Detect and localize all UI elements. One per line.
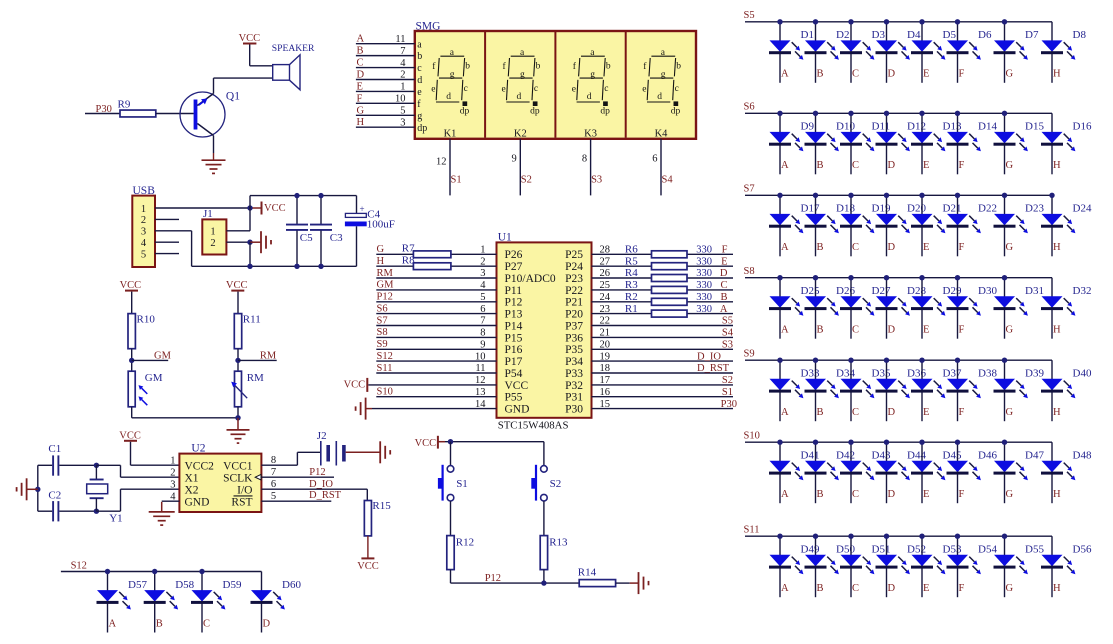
svg-text:E: E — [923, 160, 929, 171]
svg-text:P15: P15 — [505, 332, 523, 344]
net label S2 (U1 right) — [722, 375, 733, 386]
svg-text:D_IO: D_IO — [697, 351, 721, 362]
LED D47 — [994, 442, 1045, 503]
U1 pin 12 (VCC) — [475, 375, 528, 392]
svg-text:dp: dp — [671, 107, 681, 117]
wire U2 pin6 / net D_IO to R15 — [261, 479, 367, 501]
LED D42 — [805, 442, 855, 503]
svg-text:D39: D39 — [1025, 368, 1044, 380]
svg-text:B: B — [817, 69, 824, 80]
svg-text:b: b — [606, 62, 611, 72]
svg-text:K3: K3 — [584, 128, 597, 139]
net label D (S6) — [888, 160, 896, 171]
svg-text:A: A — [781, 325, 789, 336]
svg-text:R2: R2 — [625, 291, 638, 303]
net label A (S7) — [781, 242, 789, 253]
svg-text:G: G — [1006, 160, 1014, 171]
junction S11 col G — [1002, 534, 1007, 539]
junction VCC-S1 — [448, 439, 453, 444]
U1 pin 25 (P22) — [565, 280, 733, 297]
svg-text:D11: D11 — [872, 121, 891, 133]
net label S11 — [744, 524, 760, 535]
svg-text:P30: P30 — [565, 404, 583, 416]
svg-text:d: d — [446, 92, 451, 102]
svg-text:330: 330 — [696, 268, 712, 279]
wire USB pin2 stub — [155, 218, 179, 220]
svg-text:R1: R1 — [625, 303, 638, 315]
SMG digit 4 glyph — [642, 48, 681, 116]
svg-text:D9: D9 — [801, 121, 815, 133]
svg-text:P12: P12 — [505, 297, 523, 309]
svg-text:SCLK: SCLK — [223, 472, 253, 484]
svg-text:E: E — [923, 325, 929, 336]
svg-text:c: c — [604, 84, 608, 94]
svg-text:D27: D27 — [872, 285, 891, 297]
svg-text:D31: D31 — [1025, 285, 1044, 297]
svg-text:S9: S9 — [377, 339, 388, 350]
svg-text:100uF: 100uF — [367, 218, 395, 230]
svg-text:D14: D14 — [978, 121, 997, 133]
svg-text:D54: D54 — [978, 544, 997, 556]
junction Y1 bottom — [94, 509, 99, 514]
svg-text:e: e — [431, 84, 435, 94]
svg-text:d: d — [587, 92, 592, 102]
junction RM-gnd — [235, 415, 240, 420]
svg-text:VCC: VCC — [344, 379, 366, 390]
svg-text:D32: D32 — [1073, 285, 1092, 297]
junction S5 col B — [813, 19, 818, 24]
LED D16 — [1041, 113, 1092, 174]
U1 pin 23 (P20) — [565, 304, 733, 321]
svg-text:B: B — [817, 583, 824, 594]
junction J1 pin2 node — [247, 240, 252, 245]
SMG common pin K4 (pin 6) / net S4 — [652, 128, 673, 195]
net label G (S7) — [1006, 242, 1014, 253]
SMG pin 4 (c) / net C — [356, 58, 422, 75]
net label A (S5) — [781, 69, 789, 80]
svg-text:D_IO: D_IO — [309, 479, 333, 490]
junction S5 col D — [884, 19, 889, 24]
svg-text:U2: U2 — [191, 442, 205, 454]
svg-text:P26: P26 — [505, 249, 523, 261]
net label RM (U1 left) — [377, 268, 394, 279]
junction S6 col A — [777, 111, 782, 116]
net label C (S7) — [852, 242, 859, 253]
U1 pin 13 (P55) — [376, 387, 522, 404]
wire row S9 — [745, 359, 1052, 361]
net label F (S7) — [959, 242, 965, 253]
svg-text:2: 2 — [170, 467, 175, 478]
svg-text:P16: P16 — [505, 344, 523, 356]
net label A (S11) — [781, 583, 789, 594]
net label S4 (U1 right) — [722, 328, 734, 339]
net label F (S8) — [959, 325, 965, 336]
net label G (S6) — [1006, 160, 1014, 171]
svg-text:D18: D18 — [836, 203, 855, 215]
svg-text:F: F — [959, 325, 965, 336]
junction S9 col C — [848, 358, 853, 363]
svg-text:A: A — [781, 69, 789, 80]
svg-text:R6: R6 — [625, 244, 638, 256]
LED D19 — [840, 195, 891, 256]
svg-text:1: 1 — [170, 455, 175, 466]
net label S12 — [71, 561, 87, 572]
svg-text:1: 1 — [210, 227, 215, 238]
LED D46 — [947, 442, 998, 503]
power VCC (U1 pin12) — [344, 378, 497, 392]
svg-text:H: H — [1053, 407, 1061, 418]
svg-text:C3: C3 — [330, 232, 343, 244]
wire R10 to GM node — [131, 349, 133, 372]
junction S8 col D — [884, 275, 889, 280]
net label B (S5) — [817, 69, 824, 80]
svg-text:c: c — [417, 63, 422, 74]
svg-text:S4: S4 — [722, 328, 734, 339]
svg-text:H: H — [1053, 325, 1061, 336]
svg-text:C: C — [852, 69, 859, 80]
svg-text:5: 5 — [400, 105, 405, 116]
svg-text:P23: P23 — [565, 273, 583, 285]
junction S12 col C — [199, 569, 204, 574]
svg-text:dp: dp — [417, 123, 427, 134]
svg-text:c: c — [534, 84, 538, 94]
wire Y1 bottom to U2 X2 — [96, 489, 179, 511]
LED D53 — [911, 536, 962, 597]
svg-text:4: 4 — [400, 58, 406, 69]
svg-text:P12: P12 — [485, 573, 501, 584]
svg-text:d: d — [517, 92, 522, 102]
svg-text:VCC: VCC — [239, 33, 261, 44]
net label B (segment) — [720, 292, 727, 303]
svg-text:D5: D5 — [943, 29, 957, 41]
svg-text:S10: S10 — [744, 430, 760, 441]
svg-text:D48: D48 — [1073, 450, 1092, 462]
svg-text:F: F — [959, 242, 965, 253]
crystal Y1 — [87, 465, 123, 524]
svg-text:R12: R12 — [456, 536, 474, 548]
svg-text:GM: GM — [145, 372, 163, 384]
svg-text:D33: D33 — [801, 368, 820, 380]
LED D38 — [947, 360, 998, 421]
svg-text:A: A — [781, 583, 789, 594]
svg-text:R11: R11 — [243, 313, 261, 325]
junction S7 col C — [848, 193, 853, 198]
svg-text:D21: D21 — [943, 203, 962, 215]
SMG pin 5 (g) / net G — [356, 105, 422, 122]
svg-text:B: B — [357, 46, 364, 57]
LED D55 — [994, 536, 1045, 597]
net label S12 (U1 left) — [377, 351, 393, 362]
svg-text:S2: S2 — [550, 478, 562, 490]
net label E (segment) — [721, 256, 727, 267]
svg-text:A: A — [781, 160, 789, 171]
SMG pin 10 (f) / net F — [356, 93, 421, 110]
svg-text:A: A — [781, 242, 789, 253]
svg-text:R4: R4 — [625, 267, 638, 279]
junction S7 col A — [777, 193, 782, 198]
LED D4 — [876, 22, 921, 83]
svg-text:P10/ADC0: P10/ADC0 — [505, 273, 556, 285]
svg-text:4: 4 — [141, 238, 147, 249]
net label D (S10) — [888, 489, 896, 500]
svg-text:S7: S7 — [744, 184, 755, 195]
net label H (S5) — [1053, 69, 1061, 80]
svg-text:P13: P13 — [505, 309, 523, 321]
svg-text:B: B — [817, 489, 824, 500]
resistor R6 330 — [625, 244, 712, 258]
svg-text:d: d — [417, 75, 422, 86]
svg-text:D: D — [263, 618, 271, 629]
wire USB pin5 stub — [155, 253, 179, 255]
svg-text:2: 2 — [400, 70, 405, 81]
net label S6 (U1 left) — [377, 303, 388, 314]
net label S8 (U1 left) — [377, 327, 388, 338]
svg-text:G: G — [357, 105, 365, 116]
LED D3 — [840, 22, 885, 83]
net label D (S5) — [888, 69, 896, 80]
junction S5 col C — [848, 19, 853, 24]
svg-text:S3: S3 — [722, 340, 733, 351]
svg-text:E: E — [923, 69, 929, 80]
svg-text:3: 3 — [400, 117, 405, 128]
svg-text:VCC: VCC — [120, 280, 142, 291]
svg-text:D46: D46 — [978, 450, 997, 462]
svg-text:S12: S12 — [377, 351, 393, 362]
net label C (S6) — [852, 160, 859, 171]
svg-text:D16: D16 — [1073, 121, 1092, 133]
svg-text:330: 330 — [696, 304, 712, 315]
U1 pin 1 (P26) — [376, 245, 522, 262]
net label E (S10) — [923, 489, 929, 500]
svg-text:F: F — [959, 583, 965, 594]
svg-text:g: g — [450, 70, 455, 80]
svg-text:D40: D40 — [1073, 368, 1092, 380]
net label D (S9) — [888, 407, 896, 418]
svg-text:D6: D6 — [978, 29, 992, 41]
junction S9 col B — [813, 358, 818, 363]
svg-text:330: 330 — [696, 292, 712, 303]
svg-text:G: G — [1006, 69, 1014, 80]
junction C3 bottom — [318, 264, 323, 269]
net label F (S9) — [959, 407, 965, 418]
svg-text:VCC2: VCC2 — [185, 460, 215, 472]
LED D32 — [1041, 278, 1091, 339]
net label E (S6) — [923, 160, 929, 171]
LED D15 — [994, 113, 1045, 174]
LED D28 — [876, 278, 927, 339]
power VCC (below R15) — [357, 536, 379, 572]
junction S11 col C — [848, 534, 853, 539]
svg-text:VCC: VCC — [415, 438, 437, 449]
U1 pin 21 (P36) — [565, 328, 733, 345]
net label H (S8) — [1053, 325, 1061, 336]
SMG digit 3 glyph — [572, 48, 611, 116]
LED D11 — [840, 113, 890, 174]
junction S6 col C — [848, 111, 853, 116]
display SMG (4-digit 7-segment) — [415, 20, 696, 139]
resistor R5 330 — [625, 255, 712, 269]
resistor R12 — [447, 536, 474, 570]
svg-text:D42: D42 — [836, 450, 855, 462]
net label B (S6) — [817, 160, 824, 171]
svg-text:S6: S6 — [377, 303, 388, 314]
svg-text:S10: S10 — [377, 387, 393, 398]
svg-text:P34: P34 — [565, 356, 583, 368]
svg-text:D35: D35 — [872, 368, 891, 380]
resistor R8 — [402, 254, 451, 269]
svg-text:e: e — [642, 84, 646, 94]
net label B (S10) — [817, 489, 824, 500]
svg-text:D37: D37 — [943, 368, 962, 380]
junction S5 col G — [1002, 19, 1007, 24]
svg-text:e: e — [502, 84, 506, 94]
wire U2 pin5 / net D_RST — [261, 490, 341, 501]
svg-text:A: A — [109, 618, 117, 629]
svg-text:D41: D41 — [801, 450, 820, 462]
U1 pin 9 (P16) — [376, 340, 522, 357]
junction S8 col C — [848, 275, 853, 280]
wire GM to bottom rail — [132, 407, 238, 418]
svg-text:330: 330 — [696, 256, 712, 267]
svg-text:STC15W408AS: STC15W408AS — [498, 419, 569, 431]
LED D60 — [251, 572, 302, 633]
svg-text:E: E — [923, 583, 929, 594]
net label C (S5) — [852, 69, 859, 80]
power VCC (R10) — [120, 280, 142, 291]
LED D36 — [876, 360, 927, 421]
svg-text:H: H — [1053, 242, 1061, 253]
svg-text:R15: R15 — [372, 500, 391, 512]
capacitor C5 — [286, 196, 313, 267]
LED D17 — [769, 195, 820, 256]
LED D24 — [1041, 195, 1092, 256]
svg-text:e: e — [572, 84, 576, 94]
LED D56 — [1041, 536, 1092, 597]
svg-text:D2: D2 — [836, 29, 849, 41]
net label E (S7) — [923, 242, 929, 253]
wire row S8 — [745, 277, 1052, 279]
LED D18 — [805, 195, 856, 256]
net label E (S8) — [923, 325, 929, 336]
svg-text:H: H — [1053, 69, 1061, 80]
LED D37 — [911, 360, 962, 421]
svg-text:D: D — [888, 69, 896, 80]
LED D58 — [144, 572, 195, 633]
LED D40 — [1041, 360, 1092, 421]
svg-text:P33: P33 — [565, 368, 583, 380]
svg-text:K4: K4 — [655, 128, 669, 139]
svg-text:C: C — [852, 407, 859, 418]
wire row S10 — [745, 441, 1052, 443]
net label D (S7) — [888, 242, 896, 253]
svg-text:1: 1 — [400, 82, 405, 93]
svg-text:S1: S1 — [456, 478, 468, 490]
U1 pin 8 (P15) — [376, 328, 522, 345]
svg-text:D28: D28 — [907, 285, 926, 297]
net label B (S12) — [156, 618, 163, 629]
svg-text:D38: D38 — [978, 368, 997, 380]
LED D22 — [947, 195, 997, 256]
svg-text:P54: P54 — [505, 368, 523, 380]
junction S12 col B — [152, 569, 157, 574]
svg-text:D: D — [888, 489, 896, 500]
junction S7 col B — [813, 193, 818, 198]
SMG digit 2 glyph — [502, 48, 541, 116]
SMG common pin K3 (pin 8) / net S3 — [582, 128, 602, 195]
svg-text:e: e — [417, 87, 422, 98]
LED D59 — [191, 572, 242, 633]
junction S11 col B — [813, 534, 818, 539]
U1 pin 24 (P21) — [565, 292, 733, 309]
ground (earth) under Q1 — [202, 160, 226, 173]
svg-text:C1: C1 — [48, 443, 61, 455]
net label C (segment) — [720, 280, 727, 291]
svg-text:P36: P36 — [565, 332, 583, 344]
svg-text:F: F — [959, 407, 965, 418]
resistor R1 330 — [625, 303, 712, 317]
U1 pin 22 (P37) — [565, 316, 733, 333]
LED D10 — [805, 113, 856, 174]
svg-text:K1: K1 — [444, 128, 457, 139]
svg-text:E: E — [923, 489, 929, 500]
U1 pin 18 (P33) — [565, 363, 733, 380]
wire net P12 rail — [451, 573, 580, 584]
net label A (S12) — [109, 618, 117, 629]
svg-text:g: g — [520, 70, 525, 80]
net label S5 — [744, 10, 755, 21]
wire left rail C1-C2 — [37, 465, 39, 511]
junction S10 col F — [955, 440, 960, 445]
svg-text:VCC: VCC — [119, 431, 141, 442]
svg-text:5: 5 — [141, 249, 146, 260]
svg-text:P20: P20 — [565, 309, 583, 321]
svg-text:F: F — [722, 245, 728, 256]
svg-text:S3: S3 — [591, 175, 602, 186]
svg-text:F: F — [357, 93, 363, 104]
net label H (S7) — [1053, 242, 1061, 253]
svg-text:RM: RM — [377, 268, 394, 279]
svg-text:S11: S11 — [377, 363, 393, 374]
net label E (S9) — [923, 407, 929, 418]
svg-text:D45: D45 — [943, 450, 962, 462]
net label B (S7) — [817, 242, 824, 253]
junction S7 col E — [919, 193, 924, 198]
LED D29 — [911, 278, 962, 339]
LED D57 — [97, 572, 148, 633]
net label S7 — [744, 184, 755, 195]
svg-text:S5: S5 — [744, 10, 755, 21]
U1 pin 17 (P32) — [565, 375, 733, 392]
ground (signal) right of J2 — [346, 441, 391, 463]
junction S10 col B — [813, 440, 818, 445]
capacitor C4 100uF (polarized) — [345, 196, 395, 267]
net label H (S9) — [1053, 407, 1061, 418]
LED D54 — [947, 536, 998, 597]
wire down to S1 — [450, 442, 452, 466]
svg-text:B: B — [156, 618, 163, 629]
wire VCC to speaker — [250, 45, 273, 66]
svg-text:S8: S8 — [744, 266, 755, 277]
LED D27 — [840, 278, 891, 339]
svg-text:D44: D44 — [907, 450, 926, 462]
svg-text:7: 7 — [400, 46, 405, 57]
U1 pin 5 (P12) — [376, 292, 522, 309]
svg-text:H: H — [357, 117, 365, 128]
svg-text:D: D — [888, 407, 896, 418]
svg-text:E: E — [923, 407, 929, 418]
ground (signal) at J1 pin2 — [250, 231, 271, 253]
wire VCC to U2 pin1 — [131, 442, 180, 465]
